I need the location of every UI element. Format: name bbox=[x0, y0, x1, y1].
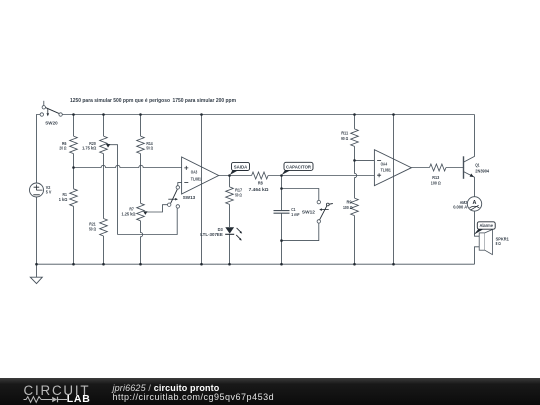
wire column R11/R9 (hop over signal wire) bbox=[355, 115, 357, 265]
footer title line bbox=[113, 384, 220, 393]
LED D3 cathode bar bbox=[225, 233, 234, 235]
switch SW13 terminal top bbox=[176, 186, 179, 189]
potentiometer R7 wiper arrow bbox=[143, 211, 147, 215]
voltage source V2 plus/step glyph bbox=[34, 185, 43, 191]
wire R7 wiper to SW13 common bbox=[144, 205, 167, 212]
transistor Q1 emitter arrow bbox=[470, 174, 474, 178]
switch SW20 unused throw stub bbox=[43, 101, 45, 106]
switch SW20 actuator arrow bbox=[47, 108, 49, 113]
svg-text:50 Ω: 50 Ω bbox=[235, 193, 242, 199]
switch SW20 terminal right bbox=[59, 113, 62, 116]
ammeter AM2 needle bbox=[470, 205, 480, 210]
wire column R20/R21 bbox=[103, 115, 105, 265]
svg-text:SW20: SW20 bbox=[45, 120, 58, 126]
wire top supply bus bbox=[62, 114, 474, 116]
switch SW13 lever bbox=[171, 187, 179, 204]
wire SW12 top branch bbox=[282, 189, 319, 201]
svg-text:R13: R13 bbox=[432, 175, 439, 181]
wire ground stub bbox=[36, 264, 38, 277]
svg-text:OA3: OA3 bbox=[191, 170, 198, 176]
speaker SPKR1 body bbox=[479, 233, 485, 250]
wire OA3 output to R8 bbox=[219, 175, 252, 177]
LED D3 light arrows bbox=[236, 228, 240, 239]
svg-text:2N3904: 2N3904 bbox=[475, 168, 489, 174]
potentiometer R7 bbox=[137, 203, 145, 221]
wire bottom ground bus bbox=[37, 263, 475, 265]
svg-text:R11: R11 bbox=[341, 130, 348, 136]
wire SW20 common to V2 bbox=[37, 115, 41, 184]
svg-text:50 Ω: 50 Ω bbox=[146, 146, 153, 152]
switch SW13 terminal common bbox=[168, 203, 171, 206]
svg-text:Q1: Q1 bbox=[475, 163, 480, 169]
voltage source V2 circle bbox=[30, 183, 44, 197]
wire ammeter to speaker + bbox=[475, 211, 480, 236]
wire column R14/R7 (hop over lower wire) bbox=[141, 115, 143, 265]
capacitor C1 plates bbox=[274, 211, 290, 214]
switch SW20 terminal left bbox=[40, 113, 43, 116]
node Alarme pointer bbox=[474, 229, 484, 235]
op-amp OA3 - input glyph bbox=[184, 182, 188, 184]
resistor R14 bbox=[137, 136, 145, 154]
node Alarme box bbox=[477, 222, 495, 229]
svg-text:CAPACITOR: CAPACITOR bbox=[286, 164, 312, 169]
resistor R1 bbox=[70, 189, 78, 207]
op-amp OA4 + input glyph bbox=[377, 173, 381, 177]
transistor Q1 base bar bbox=[463, 156, 465, 179]
ground symbol bbox=[30, 277, 42, 283]
svg-text:8 Ω: 8 Ω bbox=[496, 241, 501, 247]
svg-text:0.000 A: 0.000 A bbox=[453, 205, 467, 211]
speaker SPKR1 cone bbox=[485, 230, 493, 255]
wire column C1 bbox=[281, 176, 283, 265]
svg-text:100 Ω: 100 Ω bbox=[431, 181, 441, 187]
svg-text:20 Ω: 20 Ω bbox=[59, 146, 66, 152]
wire OA3 power rail bbox=[201, 115, 203, 265]
svg-text:1.75 kΩ: 1.75 kΩ bbox=[82, 146, 96, 152]
footer url line bbox=[113, 393, 275, 402]
switch SW12 lever end circle bbox=[326, 203, 329, 206]
svg-text:100 Ω: 100 Ω bbox=[343, 205, 353, 211]
CircuitLab logo resistor-diode glyph bbox=[23, 395, 68, 404]
wire SW13 throw to OA3 inverting input bbox=[178, 183, 182, 186]
svg-text:1 kΩ: 1 kΩ bbox=[59, 197, 68, 203]
svg-text:50 Ω: 50 Ω bbox=[89, 226, 96, 232]
node SAIDA box bbox=[232, 162, 250, 170]
switch SW13 terminal bottom bbox=[176, 205, 179, 208]
op-amp OA3 body bbox=[182, 157, 219, 194]
svg-text:1250 para simular 500 ppm que: 1250 para simular 500 ppm que é perigoso bbox=[70, 98, 170, 104]
ammeter AM2 circle bbox=[467, 197, 481, 211]
svg-text:5 V: 5 V bbox=[46, 190, 52, 196]
switch SW12 terminal bottom bbox=[317, 220, 320, 223]
CircuitLab logo text bbox=[24, 384, 91, 397]
LED D3 triangle bbox=[225, 227, 234, 233]
svg-text:SW12: SW12 bbox=[302, 210, 315, 216]
op-amp OA3 + input glyph bbox=[184, 166, 188, 170]
wire V2 to ground bus bbox=[36, 197, 38, 264]
op-amp OA4 body bbox=[374, 150, 411, 186]
svg-text:1 mF: 1 mF bbox=[291, 212, 299, 218]
resistor R17 bbox=[226, 187, 234, 205]
svg-text:SW13: SW13 bbox=[183, 195, 196, 201]
svg-text:1.25 kΩ: 1.25 kΩ bbox=[122, 212, 136, 218]
switch SW12 lever bbox=[320, 204, 333, 220]
switch SW12 terminal top bbox=[317, 200, 320, 203]
footer bar bbox=[0, 378, 540, 405]
svg-text:R8: R8 bbox=[258, 181, 263, 187]
wire R11/R9 node to OA4 inverting input bbox=[355, 159, 375, 161]
wire OA4 power rail bbox=[393, 115, 395, 265]
wire column R6/R1 bbox=[73, 115, 75, 265]
resistor R11 bbox=[351, 129, 359, 147]
wire Q1 emitter to ammeter bbox=[464, 172, 475, 197]
wire column R17/D3 bbox=[229, 176, 231, 265]
op-amp OA4 - input glyph bbox=[377, 159, 381, 161]
resistor R8 bbox=[252, 172, 269, 179]
resistor R6 bbox=[70, 136, 78, 154]
node SAIDA pointer bbox=[230, 171, 238, 175]
switch SW13 actuator arrow bbox=[168, 198, 175, 200]
svg-text:A: A bbox=[473, 200, 477, 206]
node CAPACITOR pointer bbox=[282, 170, 291, 175]
resistor R13 bbox=[430, 164, 447, 171]
svg-text:OA4: OA4 bbox=[381, 161, 388, 167]
node CAPACITOR box bbox=[284, 162, 313, 170]
svg-text:90 Ω: 90 Ω bbox=[341, 136, 348, 142]
switch SW20 lever bbox=[42, 106, 59, 113]
wire SW12 bottom branch bbox=[282, 223, 319, 240]
wire R8 to OA4 non-inverting input bbox=[268, 175, 374, 177]
switch SW20 terminal top bbox=[42, 106, 45, 109]
resistor R21 bbox=[100, 219, 108, 237]
svg-text:Alarme: Alarme bbox=[479, 223, 493, 228]
wire divider node to OA3 non-inverting input (hops over 3 wires) bbox=[74, 165, 182, 167]
wire R13 to Q1 base bbox=[446, 167, 464, 169]
switch SW12 actuator arrow bbox=[322, 209, 329, 211]
wire lower node to SW13 throw bbox=[118, 208, 178, 234]
svg-text:TL081: TL081 bbox=[381, 167, 391, 173]
voltage source V2 minus glyph bbox=[33, 194, 40, 196]
wire Q1 collector to bus bbox=[464, 115, 475, 163]
wire R20 wiper to lower node bbox=[107, 145, 118, 235]
wire OA4 output to R13 bbox=[411, 167, 429, 169]
svg-text:7.464 kΩ: 7.464 kΩ bbox=[249, 187, 269, 193]
svg-text:LTL-307EE: LTL-307EE bbox=[200, 232, 223, 238]
potentiometer R20 wiper arrow bbox=[106, 144, 110, 148]
svg-text:TL081: TL081 bbox=[191, 176, 201, 182]
resistor R9 bbox=[351, 198, 359, 216]
svg-text:SAIDA: SAIDA bbox=[234, 164, 248, 169]
potentiometer R20 bbox=[100, 136, 108, 154]
svg-text:R9: R9 bbox=[347, 200, 352, 206]
svg-text:1750 para simular 200 ppm: 1750 para simular 200 ppm bbox=[173, 98, 237, 104]
junction dots bbox=[72, 113, 75, 116]
wire speaker - to ground bus bbox=[475, 247, 480, 264]
